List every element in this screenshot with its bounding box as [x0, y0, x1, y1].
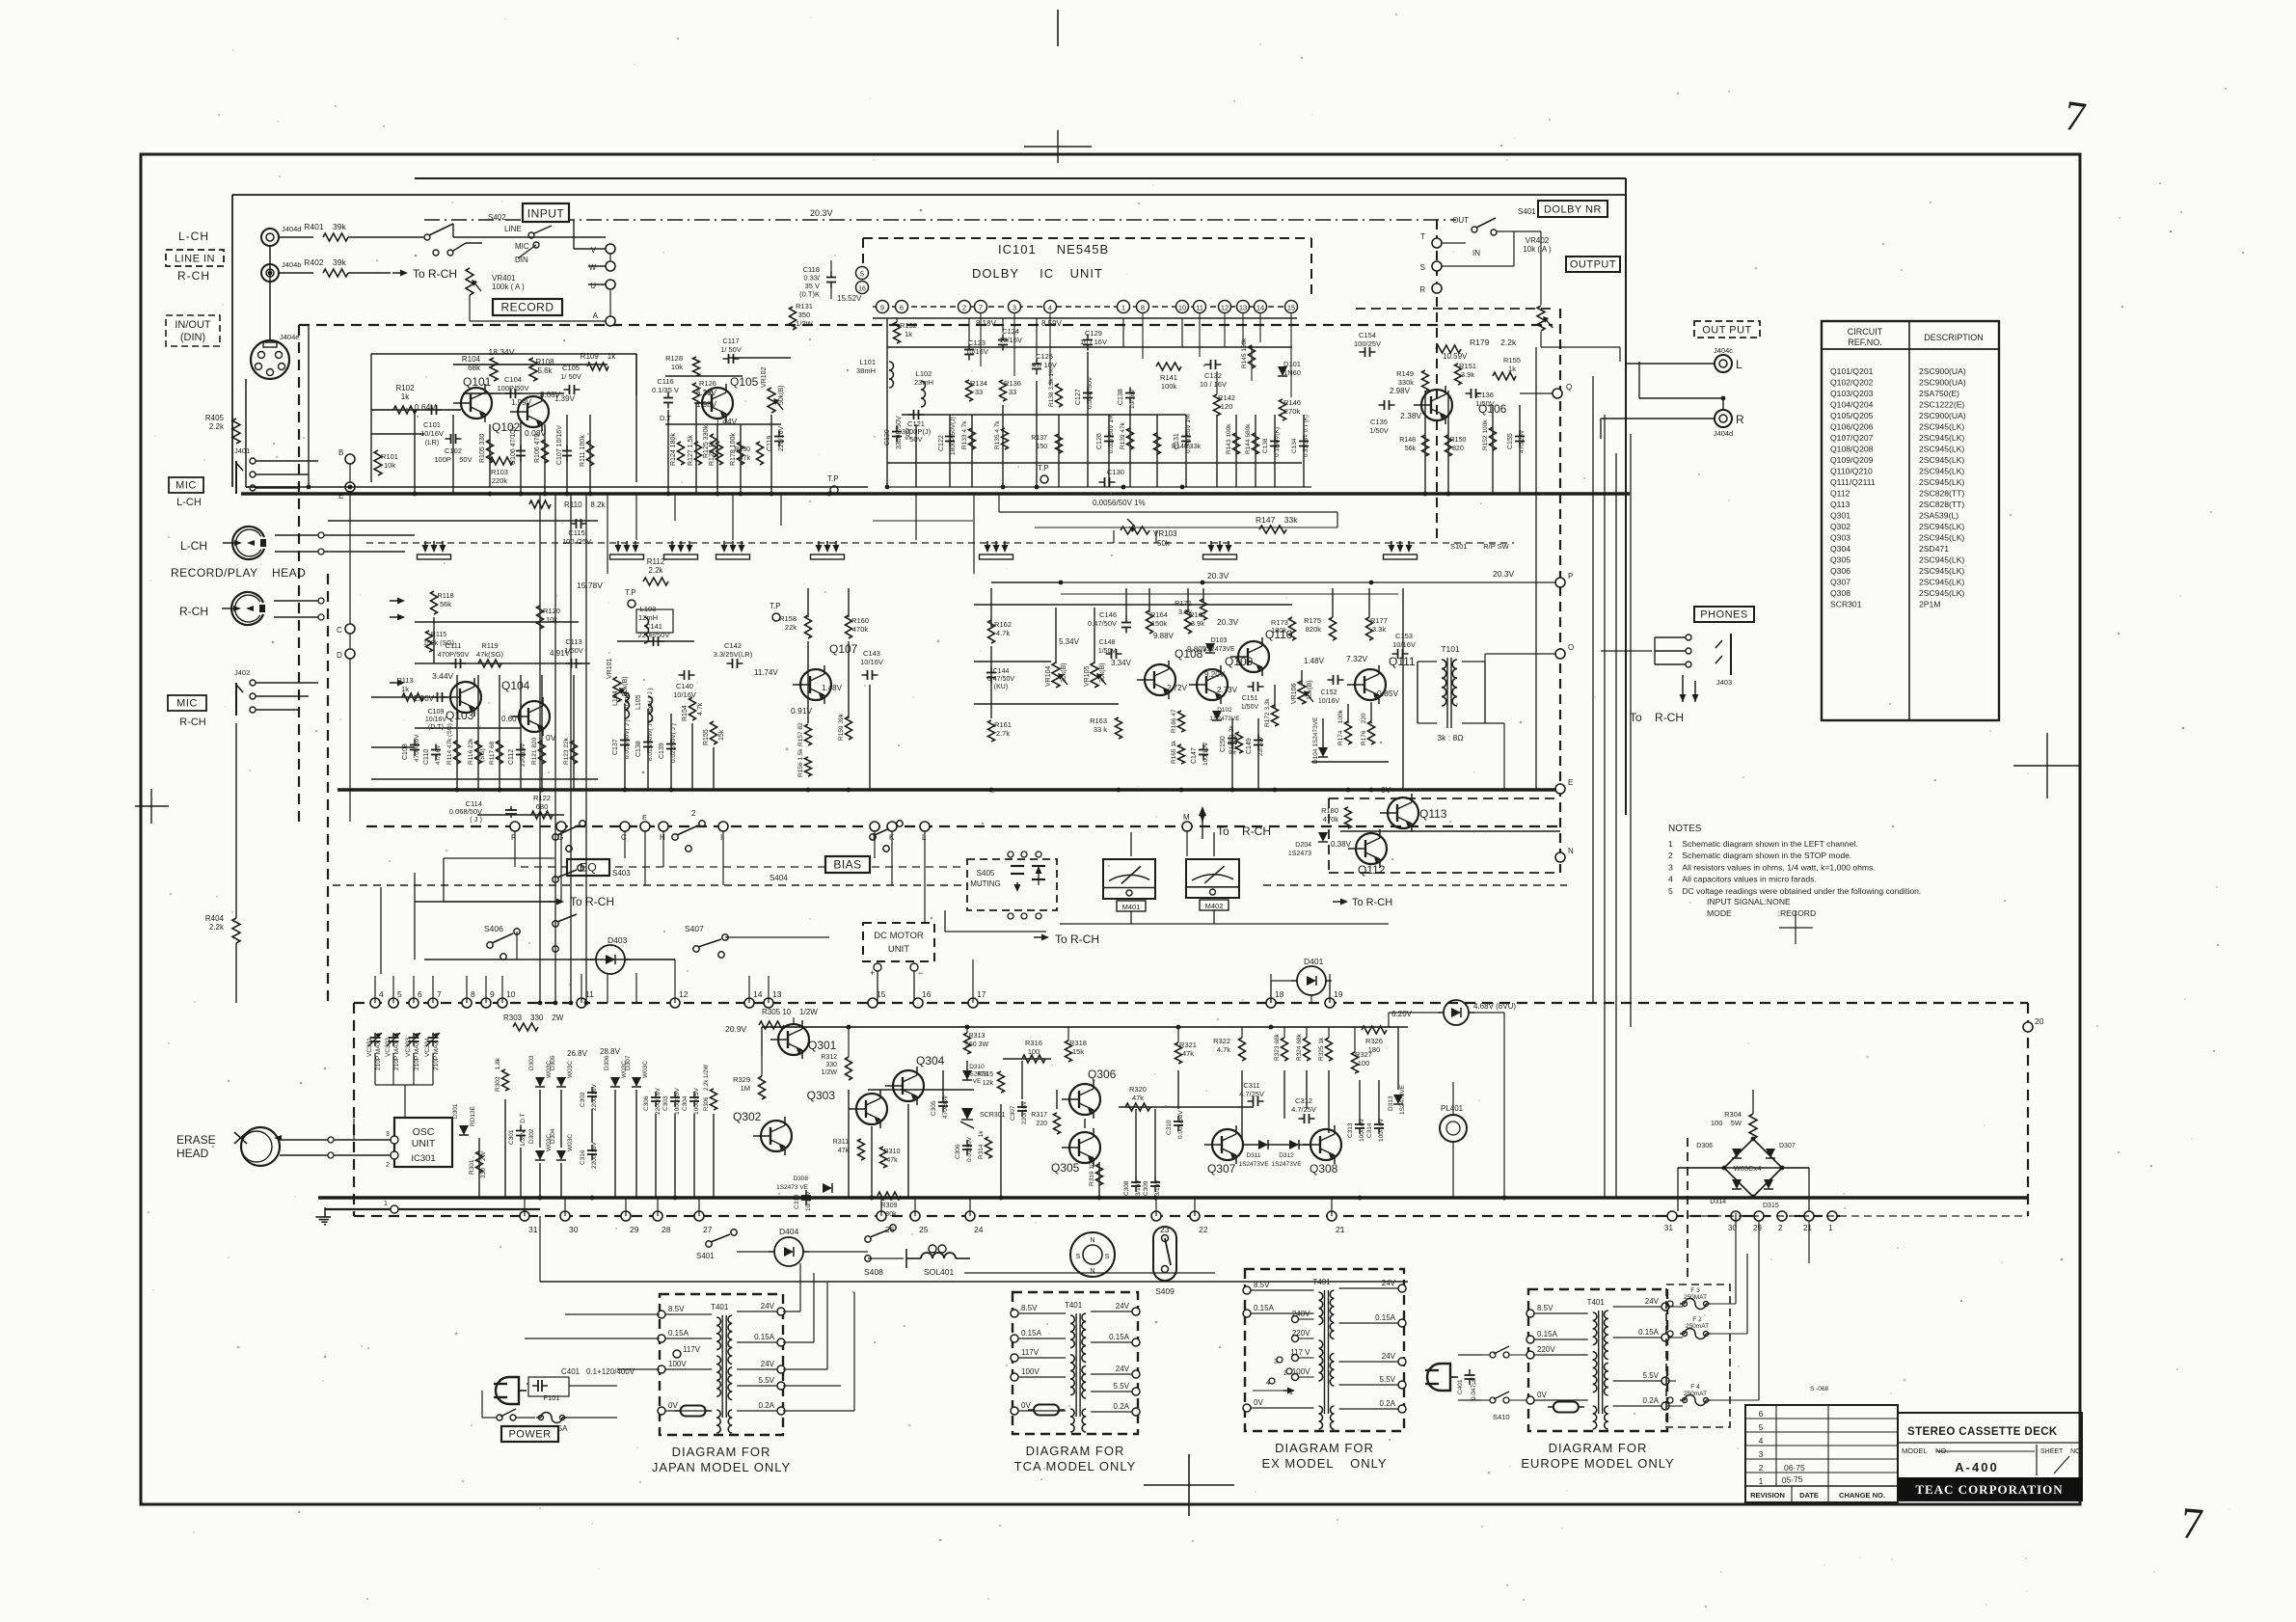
- resistor R134 33: [966, 379, 987, 401]
- diode D301: [452, 1103, 476, 1135]
- resistor R141 100k: [1156, 363, 1181, 391]
- svg-text:15: 15: [1287, 304, 1295, 312]
- node H: [659, 822, 668, 842]
- svg-text:8.59V: 8.59V: [1041, 319, 1063, 328]
- svg-text:470P/50V: 470P/50V: [438, 650, 470, 659]
- svg-text:C122: C122: [938, 435, 945, 451]
- svg-text:D404: D404: [779, 1227, 799, 1236]
- transistor Q301: [770, 1020, 837, 1059]
- svg-text:C311: C311: [1243, 1081, 1259, 1090]
- svg-text:R155: R155: [1503, 356, 1521, 365]
- svg-text:1000/35V: 1000/35V: [674, 1088, 681, 1115]
- wire mid extra: [873, 494, 1337, 527]
- svg-text:210P MAX: 210P MAX: [375, 1040, 382, 1070]
- capacitor C152: [1318, 675, 1344, 705]
- capacitor C149: [1246, 735, 1264, 757]
- mic L-CH label box: [169, 477, 203, 508]
- svg-text:1N60: 1N60: [1283, 368, 1301, 377]
- svg-text:0V: 0V: [546, 733, 556, 743]
- resistor R114 47k: [446, 723, 461, 765]
- resistor R119 47k: [476, 641, 503, 667]
- svg-text:7: 7: [2179, 1498, 2205, 1549]
- svg-text:30k(B): 30k(B): [1099, 662, 1106, 683]
- svg-text:1.48V: 1.48V: [822, 684, 843, 692]
- svg-text:R119: R119: [481, 641, 498, 650]
- testpoint TP mid: [827, 474, 839, 494]
- svg-text:1M: 1M: [741, 1084, 750, 1093]
- capacitor C129: [1080, 329, 1107, 351]
- svg-text:R144 680k: R144 680k: [1245, 423, 1252, 454]
- svg-text:C314: C314: [1366, 1122, 1373, 1138]
- ground osc: [315, 1207, 331, 1225]
- svg-text:19: 19: [1334, 989, 1343, 999]
- svg-text:R322: R322: [1213, 1037, 1230, 1045]
- transistor Q302: [733, 1110, 792, 1155]
- svg-text:2SC828(TT): 2SC828(TT): [1919, 489, 1964, 499]
- svg-text:100: 100: [1028, 1047, 1040, 1056]
- svg-text:1/ 50V: 1/ 50V: [560, 372, 581, 381]
- jack J401: [234, 446, 318, 494]
- resistor R173 180k: [1289, 617, 1296, 640]
- svg-text:R174 100k: R174 100k: [1337, 709, 1344, 745]
- svg-text:10/16V: 10/16V: [965, 347, 988, 356]
- svg-text:13: 13: [772, 989, 782, 999]
- capacitor C130: [1093, 468, 1146, 507]
- svg-text:M: M: [1183, 813, 1190, 822]
- svg-text:7.32V: 7.32V: [1346, 654, 1368, 663]
- svg-text:2SC945(LK): 2SC945(LK): [1919, 455, 1964, 465]
- capacitor C120: [884, 416, 912, 449]
- switch capsule S409: [1153, 1227, 1176, 1296]
- svg-text:R313: R313: [969, 1033, 986, 1040]
- wire japan taps: [525, 1263, 854, 1411]
- svg-text:R158: R158: [779, 614, 797, 623]
- svg-text:1000/25V: 1000/25V: [693, 1088, 700, 1115]
- capacitor C401 japan: [528, 1367, 635, 1396]
- svg-text:R126: R126: [699, 379, 716, 388]
- svg-text:R301: R301: [469, 1159, 475, 1175]
- svg-text:C308: C308: [1123, 1180, 1130, 1196]
- bus risers bottom: [525, 1198, 1332, 1216]
- svg-text:47k(SG): 47k(SG): [476, 650, 503, 659]
- svg-text:2.72V: 2.72V: [1167, 684, 1188, 692]
- svg-text:3: 3: [1759, 1449, 1764, 1459]
- svg-text:C304: C304: [682, 1095, 689, 1111]
- capacitor C136: [1466, 389, 1495, 408]
- resistor R111 100k: [580, 435, 594, 467]
- input label box: [523, 203, 569, 222]
- svg-text:D312: D312: [1279, 1152, 1294, 1159]
- svg-text:24V: 24V: [1645, 1297, 1660, 1306]
- capacitor C313: [1347, 1118, 1365, 1142]
- svg-text:250mAT: 250mAT: [1684, 1391, 1707, 1397]
- svg-text:J401: J401: [234, 446, 250, 455]
- svg-text:R306 2.2k 1/2W: R306 2.2k 1/2W: [704, 1065, 710, 1111]
- svg-text:6: 6: [1759, 1409, 1764, 1419]
- svg-text:180k: 180k: [1271, 626, 1287, 635]
- capacitor C314: [1366, 1118, 1385, 1142]
- resistor R115 150k: [423, 631, 454, 652]
- svg-text:R319 100k: R319 100k: [1089, 1155, 1095, 1186]
- svg-text:10 / 16V: 10 / 16V: [1080, 338, 1107, 346]
- resistor R318 15k: [1066, 1039, 1087, 1062]
- diode D404: [737, 1227, 868, 1266]
- svg-text:DOLBY IC UNIT: DOLBY IC UNIT: [972, 266, 1103, 281]
- svg-text:5: 5: [860, 270, 864, 279]
- svg-text:C141: C141: [645, 622, 662, 631]
- wires head R: [274, 598, 405, 621]
- capacitor C122: [938, 417, 957, 455]
- variable capacitors VC301-VC304: [366, 1033, 440, 1070]
- wire meter link: [945, 910, 1046, 932]
- output vertical dashed P O E N: [1356, 309, 1560, 873]
- svg-text:33/16V: 33/16V: [1135, 1179, 1142, 1200]
- circuit reference table: [1822, 321, 1999, 720]
- resistor R133 4.7k: [961, 420, 976, 449]
- svg-text:C301: C301: [508, 1129, 515, 1145]
- svg-text:L-CH: L-CH: [178, 230, 209, 243]
- svg-text:C132: C132: [1204, 371, 1222, 380]
- resistor R310 47k: [880, 1147, 901, 1168]
- svg-text:C312: C312: [1295, 1096, 1312, 1105]
- svg-text:2.38V: 2.38V: [1400, 411, 1422, 420]
- svg-text:D305: D305: [550, 1055, 556, 1070]
- capacitor C113: [550, 637, 583, 668]
- jack J403 phones: [1655, 634, 1732, 687]
- svg-text:5 DC voltage readings were ob: 5 DC voltage readings were obtained unde…: [1668, 886, 1921, 896]
- resistor R163 33k: [1090, 716, 1121, 739]
- transformer diagram EUROPE: [1521, 1289, 1674, 1471]
- svg-text:F 3: F 3: [1690, 1287, 1700, 1294]
- to R-CH arrows right: [1630, 675, 1699, 724]
- svg-text:N: N: [1090, 1237, 1094, 1244]
- svg-text:3.3k: 3.3k: [1372, 625, 1386, 634]
- jack J404c L: [1714, 346, 1742, 372]
- svg-text:10.59V: 10.59V: [1443, 352, 1468, 361]
- resistor R117 68: [489, 741, 503, 765]
- osc unit box: [394, 1118, 452, 1167]
- svg-text:R142: R142: [1218, 393, 1235, 402]
- svg-text:R309: R309: [881, 1203, 898, 1209]
- resistor R155b 15k: [703, 721, 725, 745]
- wire q30x rails: [762, 981, 1504, 1198]
- svg-text:1/50V: 1/50V: [1241, 704, 1259, 711]
- svg-text:33 k: 33 k: [1094, 725, 1107, 734]
- svg-text:RD13E: RD13E: [470, 1105, 476, 1126]
- svg-text:2: 2: [386, 1162, 390, 1169]
- svg-text:D306: D306: [1696, 1143, 1713, 1149]
- svg-text:1.98V: 1.98V: [696, 400, 717, 409]
- wire inner frame second: [232, 195, 1626, 487]
- svg-text:C139: C139: [659, 743, 665, 759]
- bias label box: [825, 856, 870, 873]
- svg-text:C101: C101: [423, 420, 441, 429]
- svg-text:C138: C138: [635, 741, 642, 757]
- transistor Q113: [1380, 785, 1447, 832]
- svg-text:10k: 10k: [384, 461, 395, 470]
- resistor R161 2.7k: [988, 720, 1012, 742]
- label 8.59V: [1041, 319, 1063, 328]
- svg-text:INPUT: INPUT: [527, 207, 565, 221]
- svg-text:330: 330: [825, 1062, 837, 1068]
- svg-text:12k: 12k: [983, 1080, 994, 1087]
- svg-text:R127 1.5k: R127 1.5k: [688, 435, 694, 466]
- svg-text:C134: C134: [1291, 438, 1298, 453]
- svg-text:Q301: Q301: [808, 1039, 837, 1052]
- label R-CH line in: [177, 269, 210, 283]
- resistor R135 4.7k: [994, 420, 1009, 449]
- svg-text:C140: C140: [676, 682, 693, 690]
- resistor R120 10k: [537, 606, 560, 629]
- svg-text:47k: 47k: [838, 1148, 850, 1154]
- svg-text:R102: R102: [395, 384, 415, 392]
- capacitor C131: [1174, 414, 1192, 453]
- wire mic r to bus: [235, 723, 237, 1003]
- ground bus osc: [325, 1208, 540, 1210]
- svg-text:6: 6: [900, 304, 904, 312]
- osc nodes: [386, 1131, 398, 1169]
- svg-text:Q110/Q210: Q110/Q210: [1830, 467, 1873, 476]
- svg-text:4.91V: 4.91V: [550, 649, 571, 658]
- svg-text:3 All resistors values in ohm: 3 All resistors values in ohms, 1/4 watt…: [1668, 862, 1876, 872]
- svg-text:26.8V: 26.8V: [567, 1049, 588, 1058]
- svg-text:MIC: MIC: [176, 698, 198, 710]
- svg-text:Q112: Q112: [1358, 863, 1386, 877]
- svg-text:Q: Q: [1566, 383, 1572, 392]
- svg-text:J402: J402: [234, 668, 250, 677]
- label NOTES: [1668, 824, 1702, 834]
- node C2: [620, 822, 630, 842]
- svg-text:R325 1k: R325 1k: [1318, 1037, 1325, 1061]
- wire europe right: [1667, 1213, 1809, 1406]
- svg-text:LINE: LINE: [504, 225, 522, 233]
- svg-text:1S2473: 1S2473: [1288, 851, 1311, 857]
- svg-text:7: 7: [979, 304, 983, 312]
- svg-text:Q112: Q112: [1830, 489, 1850, 499]
- capacitor C301: [508, 1113, 527, 1147]
- resistor R157 82: [797, 722, 812, 746]
- wire mesh: [246, 318, 2028, 1198]
- resistor R402 39k: [279, 257, 391, 277]
- svg-text:9.20V: 9.20V: [1204, 670, 1226, 679]
- resistor R313 560 3W: [964, 1033, 989, 1054]
- svg-text:V: V: [591, 246, 597, 255]
- svg-text:L: L: [1736, 358, 1742, 371]
- svg-text:240V: 240V: [1292, 1310, 1310, 1318]
- line in dashed box: [166, 250, 224, 266]
- svg-text:Q101/Q201: Q101/Q201: [1830, 366, 1874, 376]
- svg-text:1S2473VE: 1S2473VE: [1271, 1161, 1302, 1168]
- label DOLBY IC UNIT: [972, 266, 1103, 281]
- capacitor C117: [720, 337, 742, 364]
- svg-text:T401: T401: [1587, 1298, 1606, 1307]
- svg-text:Q104: Q104: [501, 679, 530, 692]
- svg-text:R-CH: R-CH: [179, 716, 206, 728]
- svg-text:D304: D304: [550, 1128, 556, 1144]
- capacitor C102: [434, 434, 472, 464]
- svg-text:5: 5: [397, 989, 402, 999]
- svg-text:0.2A: 0.2A: [1114, 1402, 1130, 1411]
- svg-text:3.44V: 3.44V: [432, 671, 454, 681]
- svg-text:1: 1: [1828, 1224, 1833, 1232]
- svg-text:P: P: [1568, 572, 1573, 581]
- capacitor C121 3000P: [902, 410, 932, 444]
- wire 18.34V rail: [453, 358, 598, 393]
- resistor R118 56k: [431, 591, 454, 614]
- wire bias row link: [332, 885, 334, 1003]
- svg-text:W03C: W03C: [567, 1134, 574, 1151]
- diode D401: [1291, 957, 1332, 995]
- wire dolby left drops: [831, 260, 873, 318]
- svg-text:C113: C113: [565, 637, 581, 646]
- svg-text:8: 8: [471, 989, 475, 999]
- svg-text:S408: S408: [864, 1267, 883, 1277]
- capacitor C150: [1220, 733, 1238, 755]
- node U: [590, 280, 615, 290]
- svg-text:D102: D102: [1217, 707, 1232, 714]
- svg-text:B: B: [338, 448, 343, 457]
- svg-text:R-CH: R-CH: [179, 605, 208, 618]
- resistor R136 33: [1000, 379, 1021, 401]
- transformer diagram TCA: [1011, 1292, 1140, 1473]
- svg-text:2SC900(UA): 2SC900(UA): [1919, 366, 1966, 376]
- svg-text:L104: L104: [612, 690, 619, 706]
- svg-text:0.047µF: 0.047µF: [1471, 1377, 1477, 1400]
- svg-text:Q301: Q301: [1830, 511, 1850, 521]
- slot contacts row: [418, 541, 1418, 559]
- svg-text:18: 18: [1275, 989, 1284, 999]
- svg-text:R323 68k: R323 68k: [1274, 1033, 1281, 1061]
- label MIC DIN: [515, 242, 539, 264]
- svg-text:2.2k: 2.2k: [648, 566, 663, 575]
- svg-text:R324 68k: R324 68k: [1296, 1033, 1303, 1061]
- svg-text:C154: C154: [1359, 331, 1376, 339]
- capacitor C303: [662, 1088, 681, 1115]
- svg-text:30: 30: [569, 1225, 579, 1234]
- svg-text:C146: C146: [1099, 610, 1117, 619]
- svg-text:D315: D315: [1763, 1203, 1779, 1209]
- svg-text:8.5V: 8.5V: [668, 1305, 685, 1313]
- svg-text:15k: 15k: [1072, 1047, 1084, 1056]
- capacitor C144: [986, 667, 1014, 691]
- jack J404d R: [1714, 410, 1744, 438]
- svg-text:0.85V: 0.85V: [1377, 689, 1399, 698]
- svg-text:2SC900(UA): 2SC900(UA): [1919, 411, 1966, 420]
- svg-text:3.9k: 3.9k: [1178, 608, 1192, 616]
- wire to R jack: [1601, 419, 1715, 439]
- svg-text:Q305: Q305: [1051, 1161, 1080, 1175]
- svg-text:2SC945(LK): 2SC945(LK): [1919, 588, 1964, 598]
- svg-text:4.68V (6VU): 4.68V (6VU): [1473, 1002, 1516, 1011]
- resistor R306 2.2k: [704, 1065, 717, 1111]
- svg-text:R175: R175: [1304, 616, 1321, 625]
- svg-text:1/50V: 1/50V: [1369, 426, 1389, 435]
- dolby vertical dashed T S R: [1436, 220, 1438, 540]
- svg-text:3k : 8Ω: 3k : 8Ω: [1437, 733, 1463, 743]
- capacitor C101: [420, 405, 444, 446]
- svg-text:C316: C316: [580, 1149, 586, 1165]
- solenoid SOL401: [906, 1245, 970, 1277]
- resistor R112 2.2k: [643, 557, 668, 585]
- svg-text:T401: T401: [1065, 1301, 1083, 1310]
- svg-text:VC303: VC303: [405, 1038, 412, 1057]
- erase head symbol: [234, 1127, 282, 1166]
- resistor R121 820: [531, 737, 546, 765]
- svg-text:10/16V: 10/16V: [999, 336, 1022, 344]
- svg-text:R312: R312: [821, 1054, 837, 1061]
- svg-text:POWER: POWER: [508, 1429, 551, 1441]
- record label box: [493, 299, 562, 315]
- svg-text:27: 27: [703, 1225, 713, 1234]
- capacitor C110: [423, 744, 442, 766]
- resistor R124 180k: [670, 433, 685, 466]
- svg-text:Q102/Q202: Q102/Q202: [1830, 378, 1874, 388]
- svg-text:5.6k: 5.6k: [537, 366, 553, 375]
- svg-text:0.15A: 0.15A: [1254, 1304, 1275, 1312]
- svg-text:100k: 100k: [1161, 382, 1177, 391]
- svg-text:24V: 24V: [761, 1360, 775, 1368]
- svg-text:2 Schematic diagram shown in: 2 Schematic diagram shown in the STOP mo…: [1668, 851, 1851, 860]
- wire q112 to bus: [1371, 830, 1403, 902]
- svg-text:Q304: Q304: [1830, 544, 1850, 554]
- svg-text:0.1+120/400V: 0.1+120/400V: [586, 1367, 635, 1376]
- svg-text:29: 29: [630, 1225, 639, 1234]
- svg-text:38mH: 38mH: [856, 366, 876, 375]
- resistor R159 39k: [838, 713, 852, 741]
- resistor R171 3.9k: [1175, 599, 1206, 620]
- wire s406 row: [424, 932, 829, 976]
- switch small mid2: [553, 914, 577, 952]
- svg-text:1: 1: [384, 1201, 388, 1207]
- resistor R326 180: [1362, 1026, 1387, 1054]
- svg-text:S409: S409: [1155, 1286, 1175, 1296]
- label 18.34V: [489, 347, 515, 357]
- svg-text:N: N: [1090, 1268, 1094, 1275]
- svg-text:R152 100k: R152 100k: [1482, 419, 1489, 450]
- svg-text:C318: C318: [794, 1194, 800, 1209]
- svg-text:1: 1: [1759, 1476, 1764, 1486]
- capacitor C134: [1291, 415, 1310, 457]
- svg-text:RECORD: RECORD: [500, 301, 554, 314]
- node G: [556, 822, 566, 842]
- revision table: [1745, 1405, 1898, 1502]
- svg-text:S401: S401: [1518, 207, 1536, 216]
- resistor R146 270k: [1280, 398, 1301, 420]
- svg-text:2.98V: 2.98V: [1390, 387, 1411, 395]
- svg-text:2200/16V: 2200/16V: [591, 1142, 598, 1169]
- svg-text:350: 350: [798, 311, 811, 319]
- node S: [1420, 261, 1442, 272]
- wire right jack links: [1601, 650, 1652, 652]
- registration cross top: [1024, 10, 1092, 163]
- svg-text:R164: R164: [1150, 610, 1168, 619]
- resistor R126 1M: [693, 379, 716, 404]
- svg-text:C117: C117: [722, 337, 739, 345]
- svg-text:J404b: J404b: [282, 260, 301, 269]
- svg-text:270k: 270k: [1284, 407, 1301, 416]
- svg-text:47k: 47k: [1182, 1049, 1194, 1058]
- inductor L103 12mH: [636, 605, 673, 643]
- svg-text:MODE :RECORD: MODE :RECORD: [1707, 908, 1816, 918]
- svg-text:D308: D308: [793, 1176, 808, 1182]
- svg-text:C148: C148: [1099, 639, 1116, 646]
- svg-text:To R-CH: To R-CH: [1630, 711, 1684, 724]
- svg-text:21: 21: [1803, 1224, 1812, 1232]
- svg-text:0.15A: 0.15A: [668, 1329, 689, 1338]
- switch S404a: [870, 821, 903, 852]
- svg-text:330 2W: 330 2W: [480, 1150, 487, 1178]
- svg-text:W03C: W03C: [567, 1061, 574, 1078]
